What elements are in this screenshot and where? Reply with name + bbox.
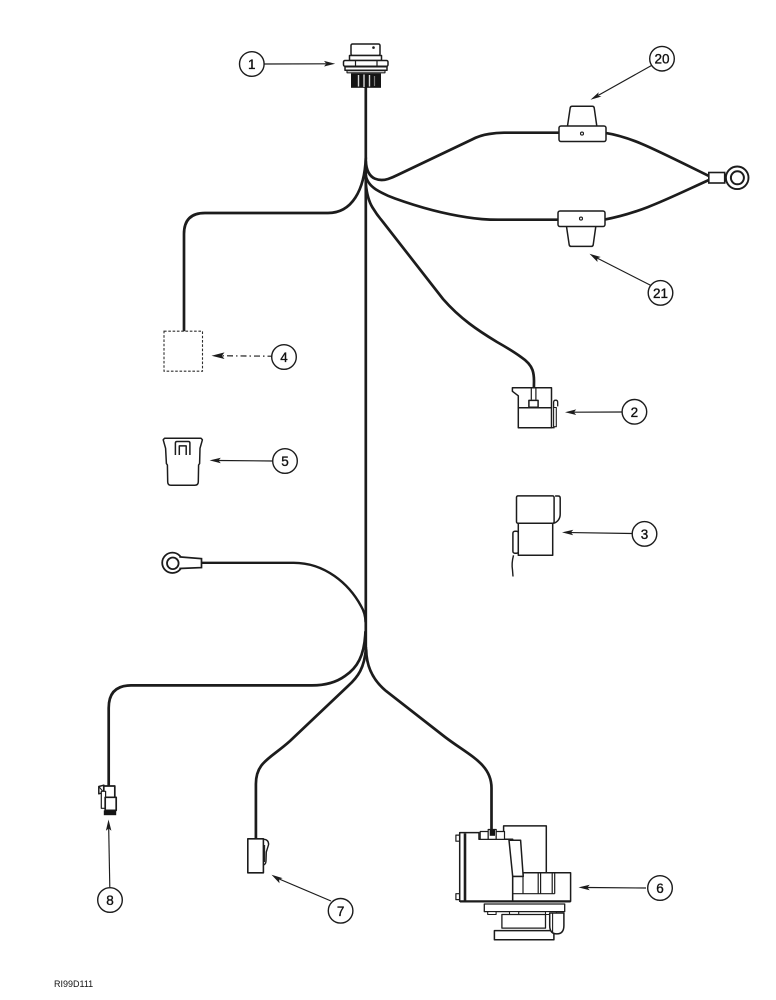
connector 8 xyxy=(99,785,116,815)
fuse holder 21 xyxy=(558,211,605,246)
connector 5 xyxy=(163,438,202,485)
callout 2 arrow xyxy=(574,411,622,413)
connector 4 (square pad) xyxy=(164,331,203,371)
wire lower lead through fuse holder 21 to ring terminal xyxy=(366,175,710,220)
svg-text:20: 20 xyxy=(654,52,669,67)
balloon 21 xyxy=(648,281,673,306)
balloon 8 xyxy=(98,888,123,913)
callout 8 arrow xyxy=(109,829,110,888)
callout 1 arrow xyxy=(264,63,326,65)
svg-text:2: 2 xyxy=(631,405,639,420)
svg-text:7: 7 xyxy=(337,904,345,919)
svg-text:5: 5 xyxy=(281,454,289,469)
callout arrows xyxy=(106,61,652,901)
ring terminal (right) xyxy=(709,167,749,190)
svg-text:8: 8 xyxy=(106,893,114,908)
balloon 4 xyxy=(272,345,297,370)
balloon 1 xyxy=(240,52,265,77)
balloon 2 xyxy=(622,400,647,425)
callout 3 arrow xyxy=(571,532,632,535)
wire branch to connector 2 xyxy=(366,184,534,401)
wire trunk (main harness vertical) xyxy=(364,87,367,648)
connector 7 xyxy=(248,839,269,873)
wire upper lead through fuse holder 20 to ring terminal xyxy=(366,133,710,180)
balloon 20 xyxy=(650,46,675,71)
connector 1 (round plug, top) xyxy=(344,44,389,88)
fuse holder 20 xyxy=(559,106,606,141)
callout 4 arrow (dash-dot) xyxy=(223,355,274,357)
balloon 7 xyxy=(328,899,353,924)
connector 3 xyxy=(512,496,560,577)
balloon 6 xyxy=(648,876,673,901)
wire branch to connector 7 xyxy=(256,648,366,838)
callout 6 arrow xyxy=(588,887,647,890)
ring terminal (left, teardrop lug) xyxy=(162,553,201,573)
wire branch to connector 6 xyxy=(366,650,491,830)
svg-text:4: 4 xyxy=(280,350,288,365)
svg-text:6: 6 xyxy=(656,881,664,896)
svg-text:1: 1 xyxy=(248,57,256,72)
callout 5 arrow xyxy=(219,460,273,463)
svg-text:RI99D111: RI99D111 xyxy=(54,979,93,989)
balloon 3 xyxy=(632,522,657,547)
svg-text:21: 21 xyxy=(653,286,668,301)
balloon 5 xyxy=(273,449,298,474)
wire from left ring terminal merging into trunk xyxy=(201,563,366,622)
callout balloons xyxy=(98,46,675,923)
callout 7 arrow xyxy=(278,879,331,902)
connector 6 (relay/solenoid assembly) xyxy=(456,826,571,940)
wire branch to connector 4 xyxy=(184,158,366,332)
callout 20 arrow xyxy=(598,66,652,96)
svg-text:3: 3 xyxy=(641,527,649,542)
wire branch to connector 8 xyxy=(109,632,366,785)
callout 21 arrow xyxy=(597,258,651,286)
connector 2 xyxy=(512,388,557,428)
